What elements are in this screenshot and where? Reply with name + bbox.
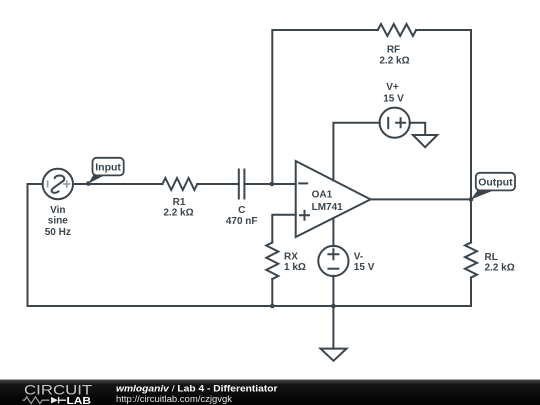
svg-text:15 V: 15 V <box>383 93 404 104</box>
svg-text:2.2 kΩ: 2.2 kΩ <box>379 55 409 66</box>
svg-text:V+: V+ <box>386 82 399 93</box>
svg-text:15 V: 15 V <box>354 262 375 273</box>
svg-text:RF: RF <box>387 45 400 56</box>
svg-text:V-: V- <box>354 252 363 263</box>
svg-text:50 Hz: 50 Hz <box>45 227 71 238</box>
svg-text:470 nF: 470 nF <box>226 216 258 227</box>
svg-text:Vin: Vin <box>50 205 65 216</box>
svg-text:RL: RL <box>485 252 498 263</box>
svg-text:2.2 kΩ: 2.2 kΩ <box>485 262 515 273</box>
svg-text:Input: Input <box>95 161 121 173</box>
svg-text:2.2 kΩ: 2.2 kΩ <box>163 207 193 218</box>
svg-text:LM741: LM741 <box>312 202 344 213</box>
svg-text:wmloganiv / Lab 4 - Differenti: wmloganiv / Lab 4 - Differentiator <box>116 384 278 394</box>
svg-text:C: C <box>238 205 245 216</box>
svg-text:Output: Output <box>478 176 513 188</box>
svg-text:LAB: LAB <box>67 396 92 405</box>
svg-text:RX: RX <box>284 252 298 263</box>
svg-text:http://circuitlab.com/czjgvgk: http://circuitlab.com/czjgvgk <box>116 394 233 404</box>
svg-text:sine: sine <box>48 216 68 227</box>
svg-text:CIRCUIT: CIRCUIT <box>24 382 93 398</box>
svg-text:1 kΩ: 1 kΩ <box>284 262 306 273</box>
svg-text:OA1: OA1 <box>312 189 333 200</box>
